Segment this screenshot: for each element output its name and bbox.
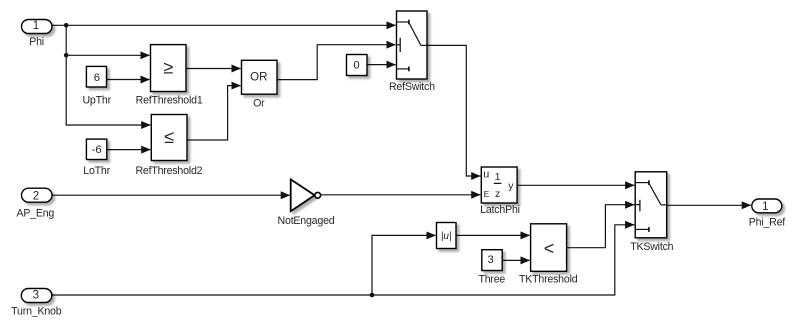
svg-text:u: u xyxy=(483,169,489,181)
wire RefSwitch to LatchPhi u xyxy=(427,45,480,176)
svg-text:OR: OR xyxy=(250,71,267,83)
wire Phi to RefSwitch input1 xyxy=(52,24,396,26)
not gate NotEngaged xyxy=(278,179,335,226)
svg-text:Turn_Knob: Turn_Knob xyxy=(11,305,62,317)
wire Three to TKThreshold input2 xyxy=(502,259,530,261)
relational operator RefThreshold2 (<=) xyxy=(135,115,202,178)
svg-text:2: 2 xyxy=(33,190,39,202)
svg-text:1: 1 xyxy=(33,20,39,32)
wire TKSwitch to Phi_Ref xyxy=(667,204,751,206)
svg-text:NotEngaged: NotEngaged xyxy=(278,215,335,227)
wire LoThr to RefThreshold2 xyxy=(107,149,151,151)
RefSwitch threshold marker xyxy=(397,44,401,46)
abs block |u| xyxy=(437,223,457,249)
TKSwitch threshold marker xyxy=(635,204,640,206)
TKSwitch output stub xyxy=(661,204,667,206)
switch TKSwitch xyxy=(630,172,673,253)
wire Abs to TKThreshold input1 xyxy=(456,234,530,236)
svg-text:0: 0 xyxy=(353,59,359,71)
wire AP_Eng to NotEngaged xyxy=(52,194,290,196)
wire Turn_Knob branch up to Abs xyxy=(372,235,436,295)
svg-text:TKThreshold: TKThreshold xyxy=(519,273,578,285)
svg-text:Three: Three xyxy=(478,273,505,285)
TKSwitch top stub xyxy=(635,182,649,184)
svg-text:TKSwitch: TKSwitch xyxy=(630,241,673,253)
RefSwitch diagonal xyxy=(409,23,421,46)
svg-text:RefThreshold2: RefThreshold2 xyxy=(135,165,202,177)
svg-text:Phi_Ref: Phi_Ref xyxy=(749,216,786,228)
svg-text:≤: ≤ xyxy=(164,127,174,147)
node junction Phi upper xyxy=(64,23,69,28)
svg-text:Phi: Phi xyxy=(29,36,44,48)
svg-text:RefThreshold1: RefThreshold1 xyxy=(136,94,203,106)
svg-text:E: E xyxy=(484,189,490,199)
inport 2 AP_Eng xyxy=(16,188,54,219)
wire UpThr to RefThreshold1 xyxy=(107,79,150,81)
inport 1 Phi xyxy=(22,20,53,48)
wire Zero to RefSwitch input3 xyxy=(367,64,396,66)
relational operator TKThreshold (<) xyxy=(519,224,578,285)
RefSwitch top stub xyxy=(397,21,409,23)
switch RefSwitch xyxy=(389,11,435,93)
relational operator RefThreshold1 (>=) xyxy=(136,45,203,107)
svg-text:UpThr: UpThr xyxy=(82,95,111,107)
RefSwitch bottom stub xyxy=(397,68,409,70)
svg-text:Or: Or xyxy=(253,97,265,109)
svg-text:y: y xyxy=(508,180,514,192)
constant LoThr value -6 xyxy=(83,139,110,177)
RefSwitch output stub xyxy=(421,44,427,46)
svg-text:z: z xyxy=(495,188,500,200)
svg-text:3: 3 xyxy=(33,289,39,301)
wire Or to RefSwitch input2 xyxy=(277,45,396,80)
wire LatchPhi y to TKSwitch input1 xyxy=(517,184,634,186)
TKSwitch bottom stub xyxy=(635,228,649,230)
TKSwitch diagonal xyxy=(649,183,661,205)
inport 3 Turn_Knob xyxy=(11,289,62,318)
svg-text:<: < xyxy=(544,238,555,258)
svg-text:-6: -6 xyxy=(92,144,102,156)
wire RefThreshold2 to Or xyxy=(187,86,241,140)
svg-text:AP_Eng: AP_Eng xyxy=(16,207,54,219)
node junction Turn_Knob xyxy=(370,293,375,298)
wire Turn_Knob to TKSwitch input3 xyxy=(52,225,635,295)
wire Phi branch down to RefThreshold1 xyxy=(66,25,149,55)
outport 1 Phi_Ref xyxy=(749,199,786,228)
svg-text:1: 1 xyxy=(762,201,768,213)
constant Three value 3 xyxy=(478,250,505,286)
node junction Phi lower xyxy=(64,53,69,58)
svg-text:1: 1 xyxy=(495,171,501,183)
unit delay LatchPhi xyxy=(480,167,520,216)
svg-text:RefSwitch: RefSwitch xyxy=(389,81,435,93)
wire NotEngaged to LatchPhi E xyxy=(321,194,481,196)
wire Phi branch down to RefThreshold2 xyxy=(66,55,150,125)
logical operator Or xyxy=(242,60,278,109)
wire RefThreshold1 to Or xyxy=(186,68,241,70)
constant 0 xyxy=(347,55,368,76)
svg-text:|u|: |u| xyxy=(441,231,452,242)
svg-text:LatchPhi: LatchPhi xyxy=(480,204,520,216)
constant UpThr value 6 xyxy=(82,66,111,106)
wire TKThreshold to TKSwitch input2 xyxy=(567,205,635,248)
svg-text:LoThr: LoThr xyxy=(83,165,110,177)
svg-text:≥: ≥ xyxy=(163,58,173,78)
svg-text:6: 6 xyxy=(94,72,100,84)
svg-text:3: 3 xyxy=(487,254,493,266)
